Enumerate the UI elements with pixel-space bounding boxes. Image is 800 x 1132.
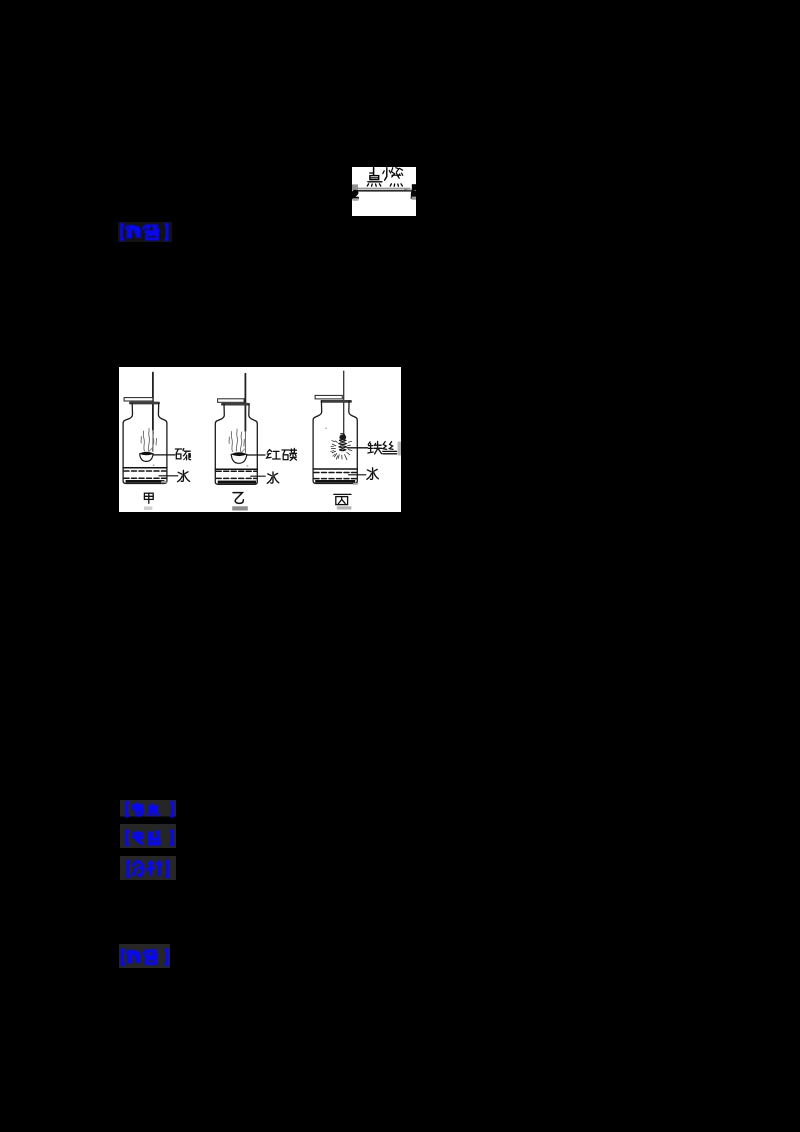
bottle 甲: leader to sulfur label: [153, 454, 175, 456]
label 乙: [233, 493, 243, 504]
bottle 乙: smoke wisps: [229, 429, 244, 452]
bottle 乙: lid plate: [218, 399, 245, 403]
bottle 甲: burning sulfur lens: [140, 452, 153, 455]
bottle 丙: lid plate: [315, 395, 342, 399]
label 丙: [334, 494, 351, 504]
label 硫: [175, 449, 190, 460]
点 glyph: [373, 168, 375, 176]
label 水 (甲): [178, 470, 190, 481]
燃 glyph: [385, 168, 387, 181]
bottle 乙: water line: [215, 468, 257, 470]
bottle 乙: bottom bar: [218, 481, 256, 484]
blue label 4: [118, 854, 180, 882]
bottle 乙: outline: [215, 404, 257, 484]
bottle 丙: bottom bar: [315, 480, 355, 483]
bottle 丙: leader to label: [347, 447, 368, 449]
smudge under 乙: [232, 506, 248, 510]
bottle 乙: spoon handle: [244, 374, 246, 431]
bottle 丙: sparks: [331, 441, 352, 460]
bottle 甲: smoke wisps: [141, 429, 157, 452]
label 水 (乙): [267, 472, 279, 483]
equation arrow box with 点燃: [352, 167, 416, 216]
label 甲: [144, 493, 153, 503]
bottle 丙: water line: [313, 468, 357, 470]
bottle 甲: leader to water label: [159, 475, 178, 477]
bottle 甲: bottom bar: [126, 480, 165, 483]
bottle 甲: outline: [123, 404, 167, 484]
blue label 2: [118, 798, 180, 820]
speck 丙: [325, 428, 326, 429]
label 红磷: [267, 448, 297, 460]
smudge under 丙: [337, 506, 352, 509]
figure: three bottles: [119, 367, 401, 512]
label 铁丝: [368, 441, 397, 454]
bottle 甲: water line: [123, 467, 167, 469]
bottle 乙: leader to label: [247, 454, 265, 456]
bottle 乙: spoon bowl: [231, 454, 247, 463]
bottle 丙: wire handle: [343, 371, 345, 434]
bottle 甲: lid plate: [124, 398, 153, 401]
bottle 乙: burning phosphorus lens: [232, 453, 247, 456]
bottle 甲: spoon handle: [152, 373, 154, 431]
bottle 乙: leader to water label: [251, 475, 265, 477]
speck 乙: [247, 465, 249, 466]
blue label 1: [117, 221, 173, 243]
blue label 5: [117, 942, 173, 970]
left edge marks: gray square, subscript 2, gray tab: [352, 184, 358, 190]
label 水 (丙): [367, 468, 379, 480]
right edge marks: black square, subscript 2, gray tab: [412, 184, 416, 190]
bottle 甲: spoon bowl: [140, 454, 153, 462]
bottle 甲: water dashes: [124, 470, 166, 472]
bottle 丙: iron wire coil: [339, 434, 347, 451]
arrow shaft double line: [357, 187, 411, 189]
bottle 丙: leader to water label: [349, 474, 366, 476]
bottle 丙: outline: [313, 401, 357, 484]
speck 甲: [153, 465, 155, 466]
gray box at figure right edge: [398, 442, 401, 456]
bottle 乙: water dashes: [216, 470, 256, 472]
blue label 3: [118, 822, 180, 850]
bottle 丙: water dashes: [314, 472, 356, 474]
smudge under 甲: [144, 507, 152, 510]
